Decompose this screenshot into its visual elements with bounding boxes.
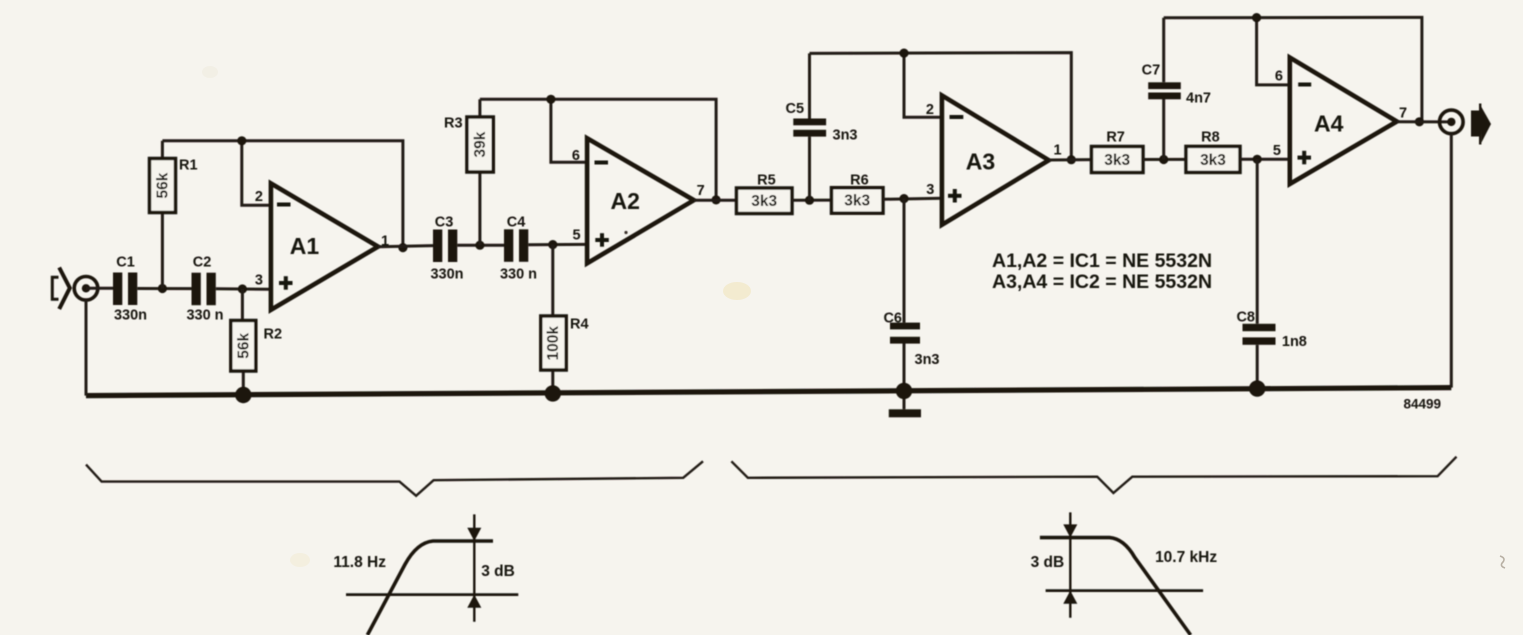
svg-text:R2: R2 bbox=[264, 327, 283, 343]
svg-text:3n3: 3n3 bbox=[915, 352, 940, 368]
svg-text:100k: 100k bbox=[545, 326, 562, 361]
svg-text:6: 6 bbox=[572, 148, 580, 164]
svg-text:R6: R6 bbox=[850, 173, 869, 189]
svg-text:330 n: 330 n bbox=[500, 267, 537, 283]
svg-text:R1: R1 bbox=[179, 158, 198, 174]
svg-text:330 n: 330 n bbox=[186, 308, 223, 324]
svg-text:A2: A2 bbox=[610, 188, 639, 214]
svg-text:1: 1 bbox=[1053, 143, 1061, 159]
svg-text:1n8: 1n8 bbox=[1282, 334, 1307, 350]
svg-text:6: 6 bbox=[1275, 68, 1283, 84]
svg-text:C2: C2 bbox=[193, 255, 212, 271]
svg-text:2: 2 bbox=[255, 189, 263, 205]
svg-text:R7: R7 bbox=[1106, 129, 1125, 145]
svg-text:5: 5 bbox=[573, 227, 581, 243]
svg-text:3n3: 3n3 bbox=[833, 128, 858, 144]
svg-text:11.8 Hz: 11.8 Hz bbox=[333, 554, 386, 571]
svg-text:3k3: 3k3 bbox=[1200, 152, 1226, 169]
svg-text:A1,A2 = IC1 = NE 5532N: A1,A2 = IC1 = NE 5532N bbox=[992, 250, 1212, 272]
svg-text:330n: 330n bbox=[114, 308, 147, 324]
svg-text:3: 3 bbox=[255, 273, 263, 289]
svg-text:C4: C4 bbox=[507, 215, 526, 231]
svg-text:3k3: 3k3 bbox=[751, 193, 777, 210]
svg-text:56k: 56k bbox=[235, 332, 252, 358]
svg-text:A3: A3 bbox=[966, 149, 995, 175]
svg-text:7: 7 bbox=[1399, 106, 1407, 122]
svg-text:A3,A4 = IC2 = NE 5532N: A3,A4 = IC2 = NE 5532N bbox=[992, 271, 1212, 293]
svg-text:3k3: 3k3 bbox=[1104, 152, 1130, 169]
svg-text:R5: R5 bbox=[757, 173, 776, 189]
svg-text:A4: A4 bbox=[1314, 111, 1344, 137]
svg-text:330n: 330n bbox=[430, 267, 463, 283]
svg-text:7: 7 bbox=[697, 183, 705, 199]
svg-text:C3: C3 bbox=[435, 215, 454, 231]
svg-text:C7: C7 bbox=[1142, 62, 1161, 78]
svg-text:5: 5 bbox=[1273, 143, 1281, 159]
svg-text:C1: C1 bbox=[116, 255, 135, 271]
svg-text:3: 3 bbox=[926, 182, 934, 198]
svg-text:3 dB: 3 dB bbox=[1031, 554, 1065, 571]
svg-text:3 dB: 3 dB bbox=[481, 563, 515, 580]
svg-text:39k: 39k bbox=[472, 131, 489, 157]
svg-text:C5: C5 bbox=[786, 101, 805, 117]
svg-text:2: 2 bbox=[926, 102, 934, 118]
svg-text:A1: A1 bbox=[290, 233, 320, 259]
svg-text:84499: 84499 bbox=[1403, 397, 1441, 412]
svg-text:10.7 kHz: 10.7 kHz bbox=[1155, 549, 1217, 566]
svg-text:3k3: 3k3 bbox=[844, 193, 870, 210]
svg-text:C8: C8 bbox=[1236, 309, 1255, 325]
svg-text:R8: R8 bbox=[1201, 129, 1220, 145]
svg-text:C6: C6 bbox=[883, 311, 902, 327]
svg-text:56k: 56k bbox=[155, 172, 172, 198]
svg-text:1: 1 bbox=[381, 234, 389, 250]
svg-text:R4: R4 bbox=[570, 317, 589, 333]
svg-text:R3: R3 bbox=[444, 116, 463, 132]
svg-text:4n7: 4n7 bbox=[1186, 91, 1211, 107]
